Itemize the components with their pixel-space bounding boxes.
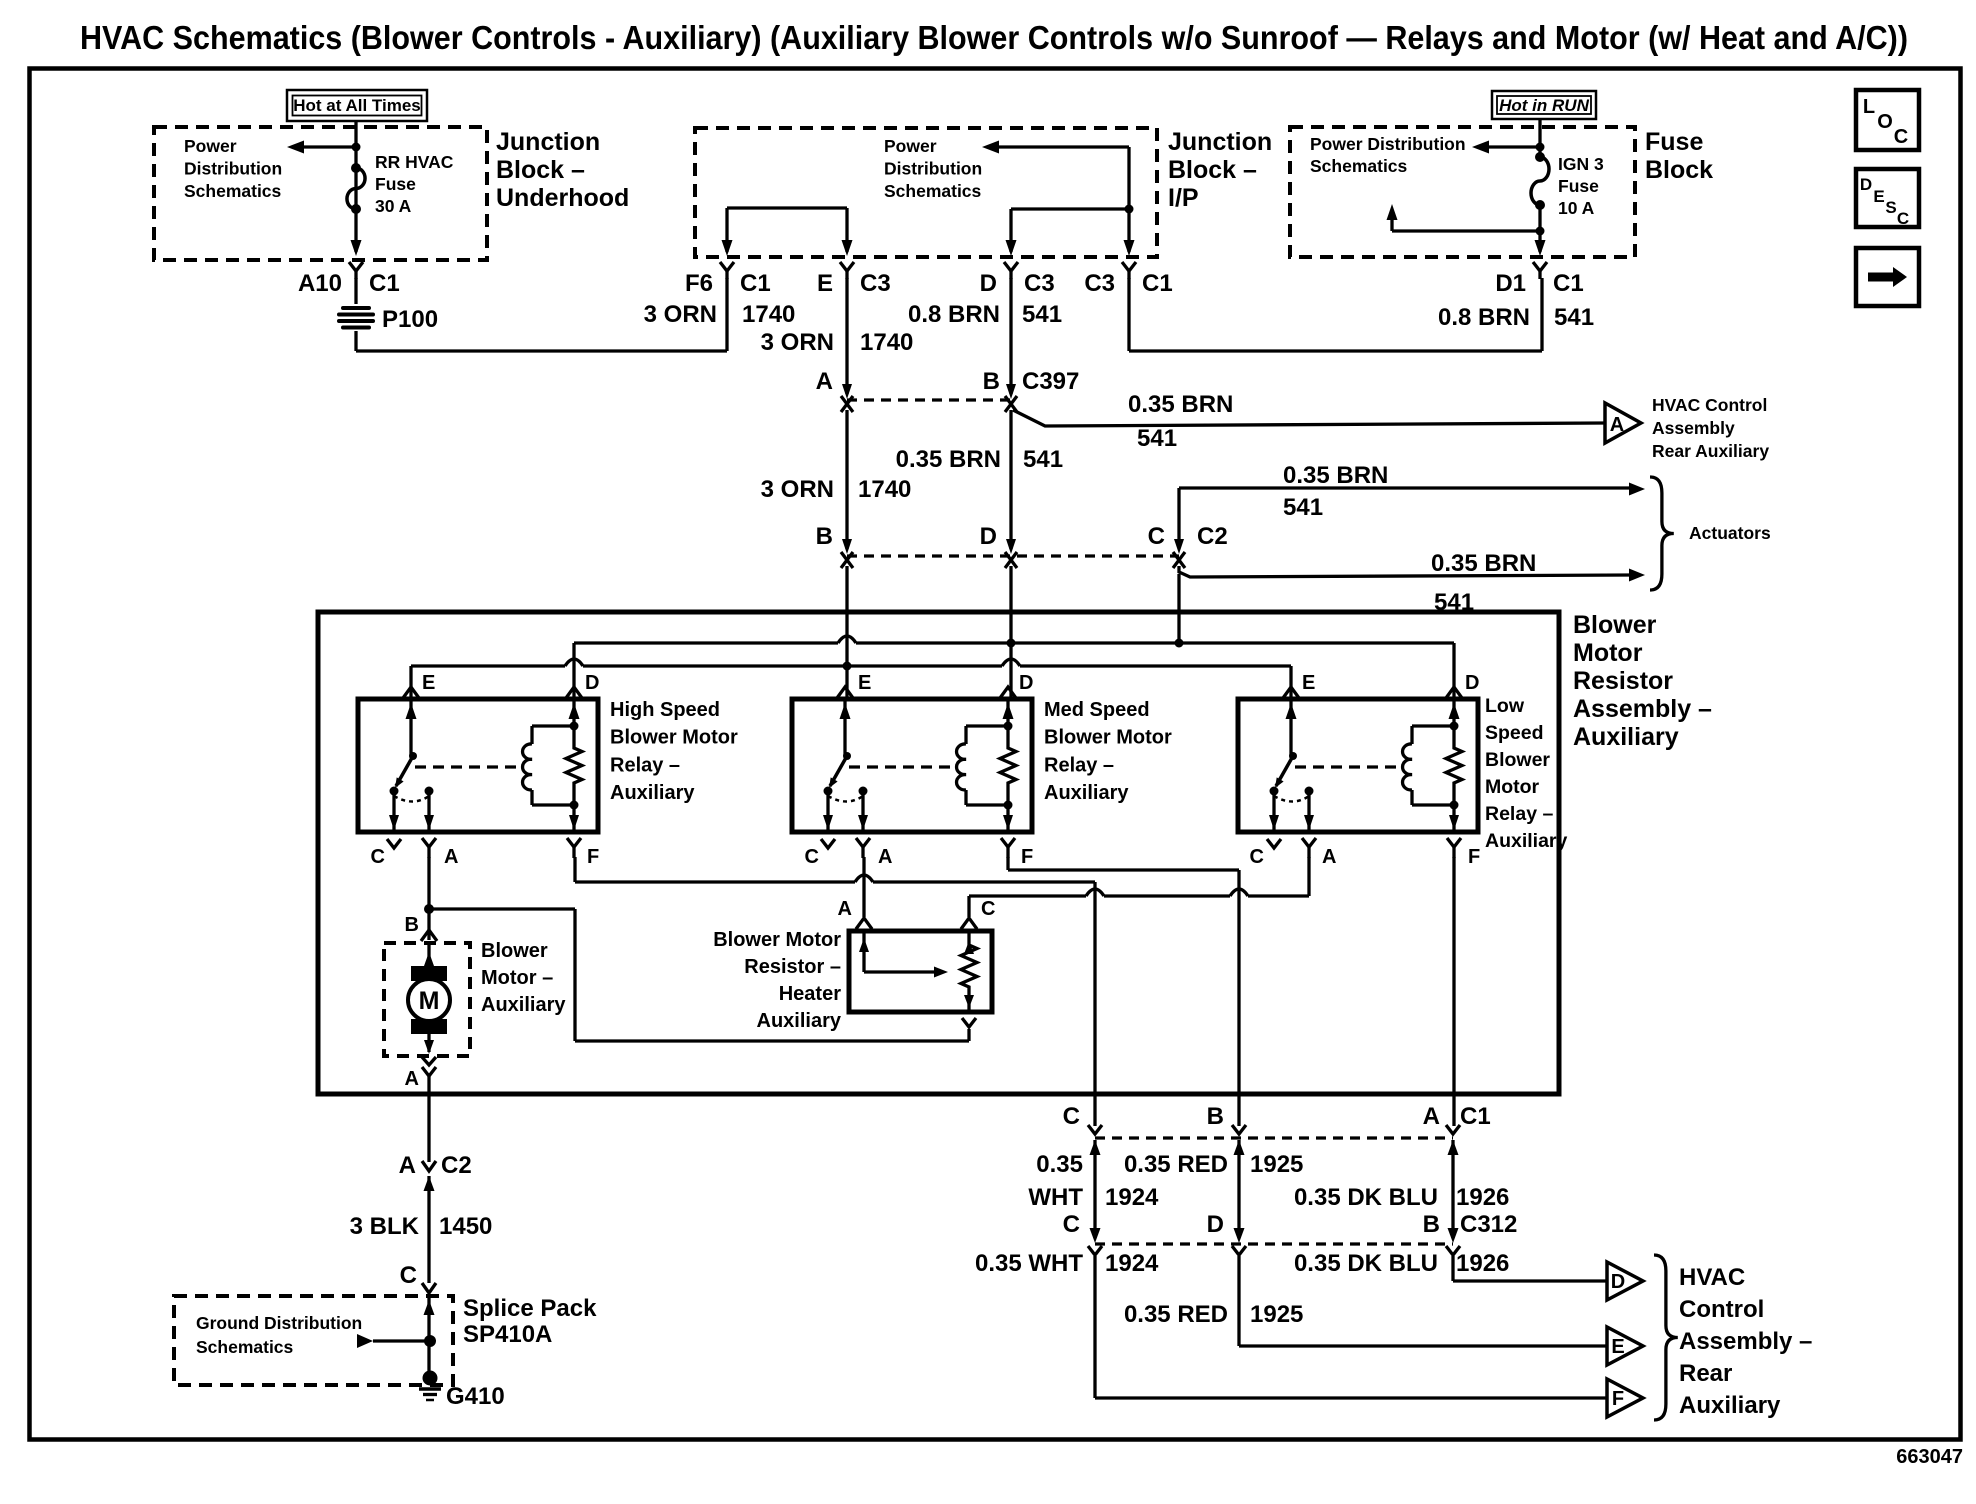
svg-text:Heater: Heater <box>779 983 841 1005</box>
svg-text:Blower: Blower <box>481 940 548 962</box>
svg-text:A10: A10 <box>298 270 342 297</box>
svg-text:Ground Distribution: Ground Distribution <box>196 1313 362 1333</box>
svg-text:D: D <box>1019 672 1033 694</box>
svg-text:High Speed: High Speed <box>610 699 720 721</box>
svg-text:Distribution: Distribution <box>884 159 982 179</box>
svg-text:541: 541 <box>1554 304 1594 331</box>
svg-text:C: C <box>981 898 995 920</box>
svg-text:C: C <box>371 846 385 868</box>
svg-text:Motor: Motor <box>1573 639 1643 667</box>
svg-text:Power: Power <box>184 136 237 156</box>
svg-text:A: A <box>1322 846 1336 868</box>
svg-text:A: A <box>816 368 833 395</box>
svg-text:E: E <box>1611 1336 1624 1358</box>
svg-text:1925: 1925 <box>1250 1301 1303 1328</box>
svg-text:HVAC Control: HVAC Control <box>1652 395 1767 415</box>
svg-text:541: 541 <box>1137 425 1177 452</box>
svg-text:541: 541 <box>1283 494 1323 521</box>
svg-text:L: L <box>1863 96 1875 118</box>
svg-text:C1: C1 <box>1142 270 1173 297</box>
svg-text:0.35 BRN: 0.35 BRN <box>1283 462 1388 489</box>
svg-text:Fuse: Fuse <box>1645 128 1703 156</box>
svg-text:D: D <box>1611 1271 1625 1293</box>
svg-text:Auxiliary: Auxiliary <box>610 782 695 804</box>
svg-text:D1: D1 <box>1495 270 1526 297</box>
svg-text:1740: 1740 <box>858 476 911 503</box>
svg-text:1925: 1925 <box>1250 1151 1303 1178</box>
svg-text:Blower: Blower <box>1485 749 1550 771</box>
svg-text:B: B <box>983 368 1000 395</box>
svg-text:Underhood: Underhood <box>496 184 629 212</box>
svg-text:1450: 1450 <box>439 1213 492 1240</box>
svg-text:C2: C2 <box>1197 523 1228 550</box>
svg-text:0.35 RED: 0.35 RED <box>1124 1151 1228 1178</box>
svg-text:Rear Auxiliary: Rear Auxiliary <box>1652 441 1769 461</box>
svg-text:0.35 BRN: 0.35 BRN <box>1128 391 1233 418</box>
svg-text:C3: C3 <box>860 270 891 297</box>
svg-text:Auxiliary: Auxiliary <box>1044 782 1129 804</box>
svg-text:E: E <box>1873 187 1884 206</box>
svg-text:Blower Motor: Blower Motor <box>713 929 841 951</box>
svg-text:Auxiliary: Auxiliary <box>1573 723 1679 751</box>
svg-text:Resistor: Resistor <box>1573 667 1673 695</box>
svg-text:A: A <box>878 846 892 868</box>
svg-text:Power Distribution: Power Distribution <box>1310 134 1466 154</box>
svg-text:Low: Low <box>1485 695 1525 717</box>
svg-text:D: D <box>585 672 599 694</box>
svg-text:B: B <box>1207 1103 1224 1130</box>
svg-text:S: S <box>1885 198 1896 217</box>
svg-text:Med Speed: Med Speed <box>1044 699 1150 721</box>
svg-text:1740: 1740 <box>742 301 795 328</box>
svg-text:3 ORN: 3 ORN <box>644 301 717 328</box>
svg-text:0.35 BRN: 0.35 BRN <box>1431 550 1536 577</box>
svg-text:0.35 RED: 0.35 RED <box>1124 1301 1228 1328</box>
svg-text:C: C <box>1148 523 1165 550</box>
svg-text:3 BLK: 3 BLK <box>350 1213 420 1240</box>
svg-text:Actuators: Actuators <box>1689 523 1771 543</box>
svg-text:A: A <box>444 846 458 868</box>
svg-text:C: C <box>805 846 819 868</box>
svg-text:Assembly –: Assembly – <box>1573 695 1712 723</box>
svg-text:Fuse: Fuse <box>375 174 416 194</box>
svg-text:Rear: Rear <box>1679 1360 1732 1387</box>
svg-text:Hot in RUN: Hot in RUN <box>1499 96 1589 115</box>
svg-text:0.35 DK BLU: 0.35 DK BLU <box>1294 1184 1438 1211</box>
svg-text:A: A <box>399 1152 416 1179</box>
svg-text:C1: C1 <box>1460 1103 1491 1130</box>
svg-text:0.8 BRN: 0.8 BRN <box>1438 304 1530 331</box>
svg-text:C: C <box>1063 1103 1080 1130</box>
svg-text:HVAC Schematics (Blower Contro: HVAC Schematics (Blower Controls - Auxil… <box>80 19 1908 56</box>
svg-text:RR HVAC: RR HVAC <box>375 152 454 172</box>
svg-text:M: M <box>419 987 440 1015</box>
svg-text:Speed: Speed <box>1485 722 1544 744</box>
svg-text:SP410A: SP410A <box>463 1321 552 1348</box>
svg-text:A: A <box>838 898 852 920</box>
svg-text:Block –: Block – <box>496 156 585 184</box>
svg-text:Splice Pack: Splice Pack <box>463 1295 597 1322</box>
svg-text:Assembly: Assembly <box>1652 418 1735 438</box>
svg-text:D: D <box>1207 1211 1224 1238</box>
svg-text:Resistor –: Resistor – <box>744 956 841 978</box>
svg-text:Schematics: Schematics <box>184 181 282 201</box>
svg-text:3 ORN: 3 ORN <box>761 476 834 503</box>
svg-text:A: A <box>1610 414 1624 436</box>
svg-text:Relay –: Relay – <box>610 754 680 776</box>
svg-text:Auxiliary: Auxiliary <box>1485 830 1568 852</box>
svg-text:C3: C3 <box>1084 270 1115 297</box>
svg-text:C: C <box>1894 126 1908 148</box>
svg-text:Relay –: Relay – <box>1044 754 1114 776</box>
svg-text:Assembly –: Assembly – <box>1679 1328 1812 1355</box>
svg-text:Relay –: Relay – <box>1485 803 1553 825</box>
svg-text:C312: C312 <box>1460 1211 1517 1238</box>
svg-text:Motor –: Motor – <box>481 967 553 989</box>
svg-text:30 A: 30 A <box>375 196 412 216</box>
svg-text:E: E <box>422 672 435 694</box>
svg-text:1924: 1924 <box>1105 1184 1159 1211</box>
svg-text:E: E <box>1302 672 1315 694</box>
svg-text:541: 541 <box>1022 301 1062 328</box>
svg-text:P100: P100 <box>382 306 438 333</box>
svg-text:Block –: Block – <box>1168 156 1257 184</box>
svg-text:B: B <box>405 914 419 936</box>
svg-text:I/P: I/P <box>1168 184 1199 212</box>
svg-text:1926: 1926 <box>1456 1250 1509 1277</box>
svg-text:0.8 BRN: 0.8 BRN <box>908 301 1000 328</box>
svg-text:0.35 WHT: 0.35 WHT <box>975 1250 1083 1277</box>
svg-text:HVAC: HVAC <box>1679 1264 1745 1291</box>
svg-text:10 A: 10 A <box>1558 198 1595 218</box>
svg-text:C1: C1 <box>369 270 400 297</box>
svg-text:Schematics: Schematics <box>196 1337 294 1357</box>
svg-text:Power: Power <box>884 136 937 156</box>
svg-text:Distribution: Distribution <box>184 159 282 179</box>
svg-text:O: O <box>1877 111 1893 133</box>
svg-text:3 ORN: 3 ORN <box>761 329 834 356</box>
svg-text:Junction: Junction <box>496 128 600 156</box>
svg-text:D: D <box>980 523 997 550</box>
svg-text:663047: 663047 <box>1896 1446 1963 1468</box>
svg-text:Junction: Junction <box>1168 128 1272 156</box>
svg-text:C2: C2 <box>441 1152 472 1179</box>
svg-text:Blower Motor: Blower Motor <box>610 727 738 749</box>
svg-text:C397: C397 <box>1022 368 1079 395</box>
svg-text:F: F <box>1612 1388 1624 1410</box>
svg-text:C: C <box>1250 846 1264 868</box>
svg-text:C: C <box>1063 1211 1080 1238</box>
svg-text:Control: Control <box>1679 1296 1764 1323</box>
svg-text:1926: 1926 <box>1456 1184 1509 1211</box>
svg-text:Schematics: Schematics <box>884 181 982 201</box>
svg-text:0.35: 0.35 <box>1036 1151 1083 1178</box>
svg-text:A: A <box>1423 1103 1440 1130</box>
svg-text:1740: 1740 <box>860 329 913 356</box>
svg-text:Blower: Blower <box>1573 611 1657 639</box>
svg-text:D: D <box>980 270 997 297</box>
svg-text:WHT: WHT <box>1028 1184 1083 1211</box>
svg-text:Blower Motor: Blower Motor <box>1044 727 1172 749</box>
svg-text:E: E <box>817 270 833 297</box>
svg-text:Hot at All Times: Hot at All Times <box>293 96 421 115</box>
svg-text:C1: C1 <box>1553 270 1584 297</box>
svg-text:G410: G410 <box>446 1383 505 1410</box>
svg-text:E: E <box>858 672 871 694</box>
svg-text:A: A <box>405 1068 419 1090</box>
svg-text:F6: F6 <box>685 270 713 297</box>
svg-text:C3: C3 <box>1024 270 1055 297</box>
svg-text:Auxiliary: Auxiliary <box>757 1010 842 1032</box>
svg-text:B: B <box>816 523 833 550</box>
svg-text:C1: C1 <box>740 270 771 297</box>
svg-text:Fuse: Fuse <box>1558 176 1599 196</box>
svg-text:Auxiliary: Auxiliary <box>481 994 566 1016</box>
svg-text:Motor: Motor <box>1485 776 1540 798</box>
svg-text:B: B <box>1423 1211 1440 1238</box>
svg-text:F: F <box>587 846 599 868</box>
svg-text:1924: 1924 <box>1105 1250 1159 1277</box>
svg-text:541: 541 <box>1023 446 1063 473</box>
svg-text:D: D <box>1860 175 1872 194</box>
svg-text:C: C <box>1897 209 1909 228</box>
svg-text:F: F <box>1021 846 1033 868</box>
svg-text:C: C <box>400 1262 417 1289</box>
svg-text:F: F <box>1468 846 1480 868</box>
svg-text:Block: Block <box>1645 156 1713 184</box>
svg-text:0.35 DK BLU: 0.35 DK BLU <box>1294 1250 1438 1277</box>
svg-text:Auxiliary: Auxiliary <box>1679 1392 1781 1419</box>
svg-text:IGN 3: IGN 3 <box>1558 154 1604 174</box>
svg-text:D: D <box>1465 672 1479 694</box>
svg-text:Schematics: Schematics <box>1310 156 1408 176</box>
svg-text:0.35 BRN: 0.35 BRN <box>896 446 1001 473</box>
